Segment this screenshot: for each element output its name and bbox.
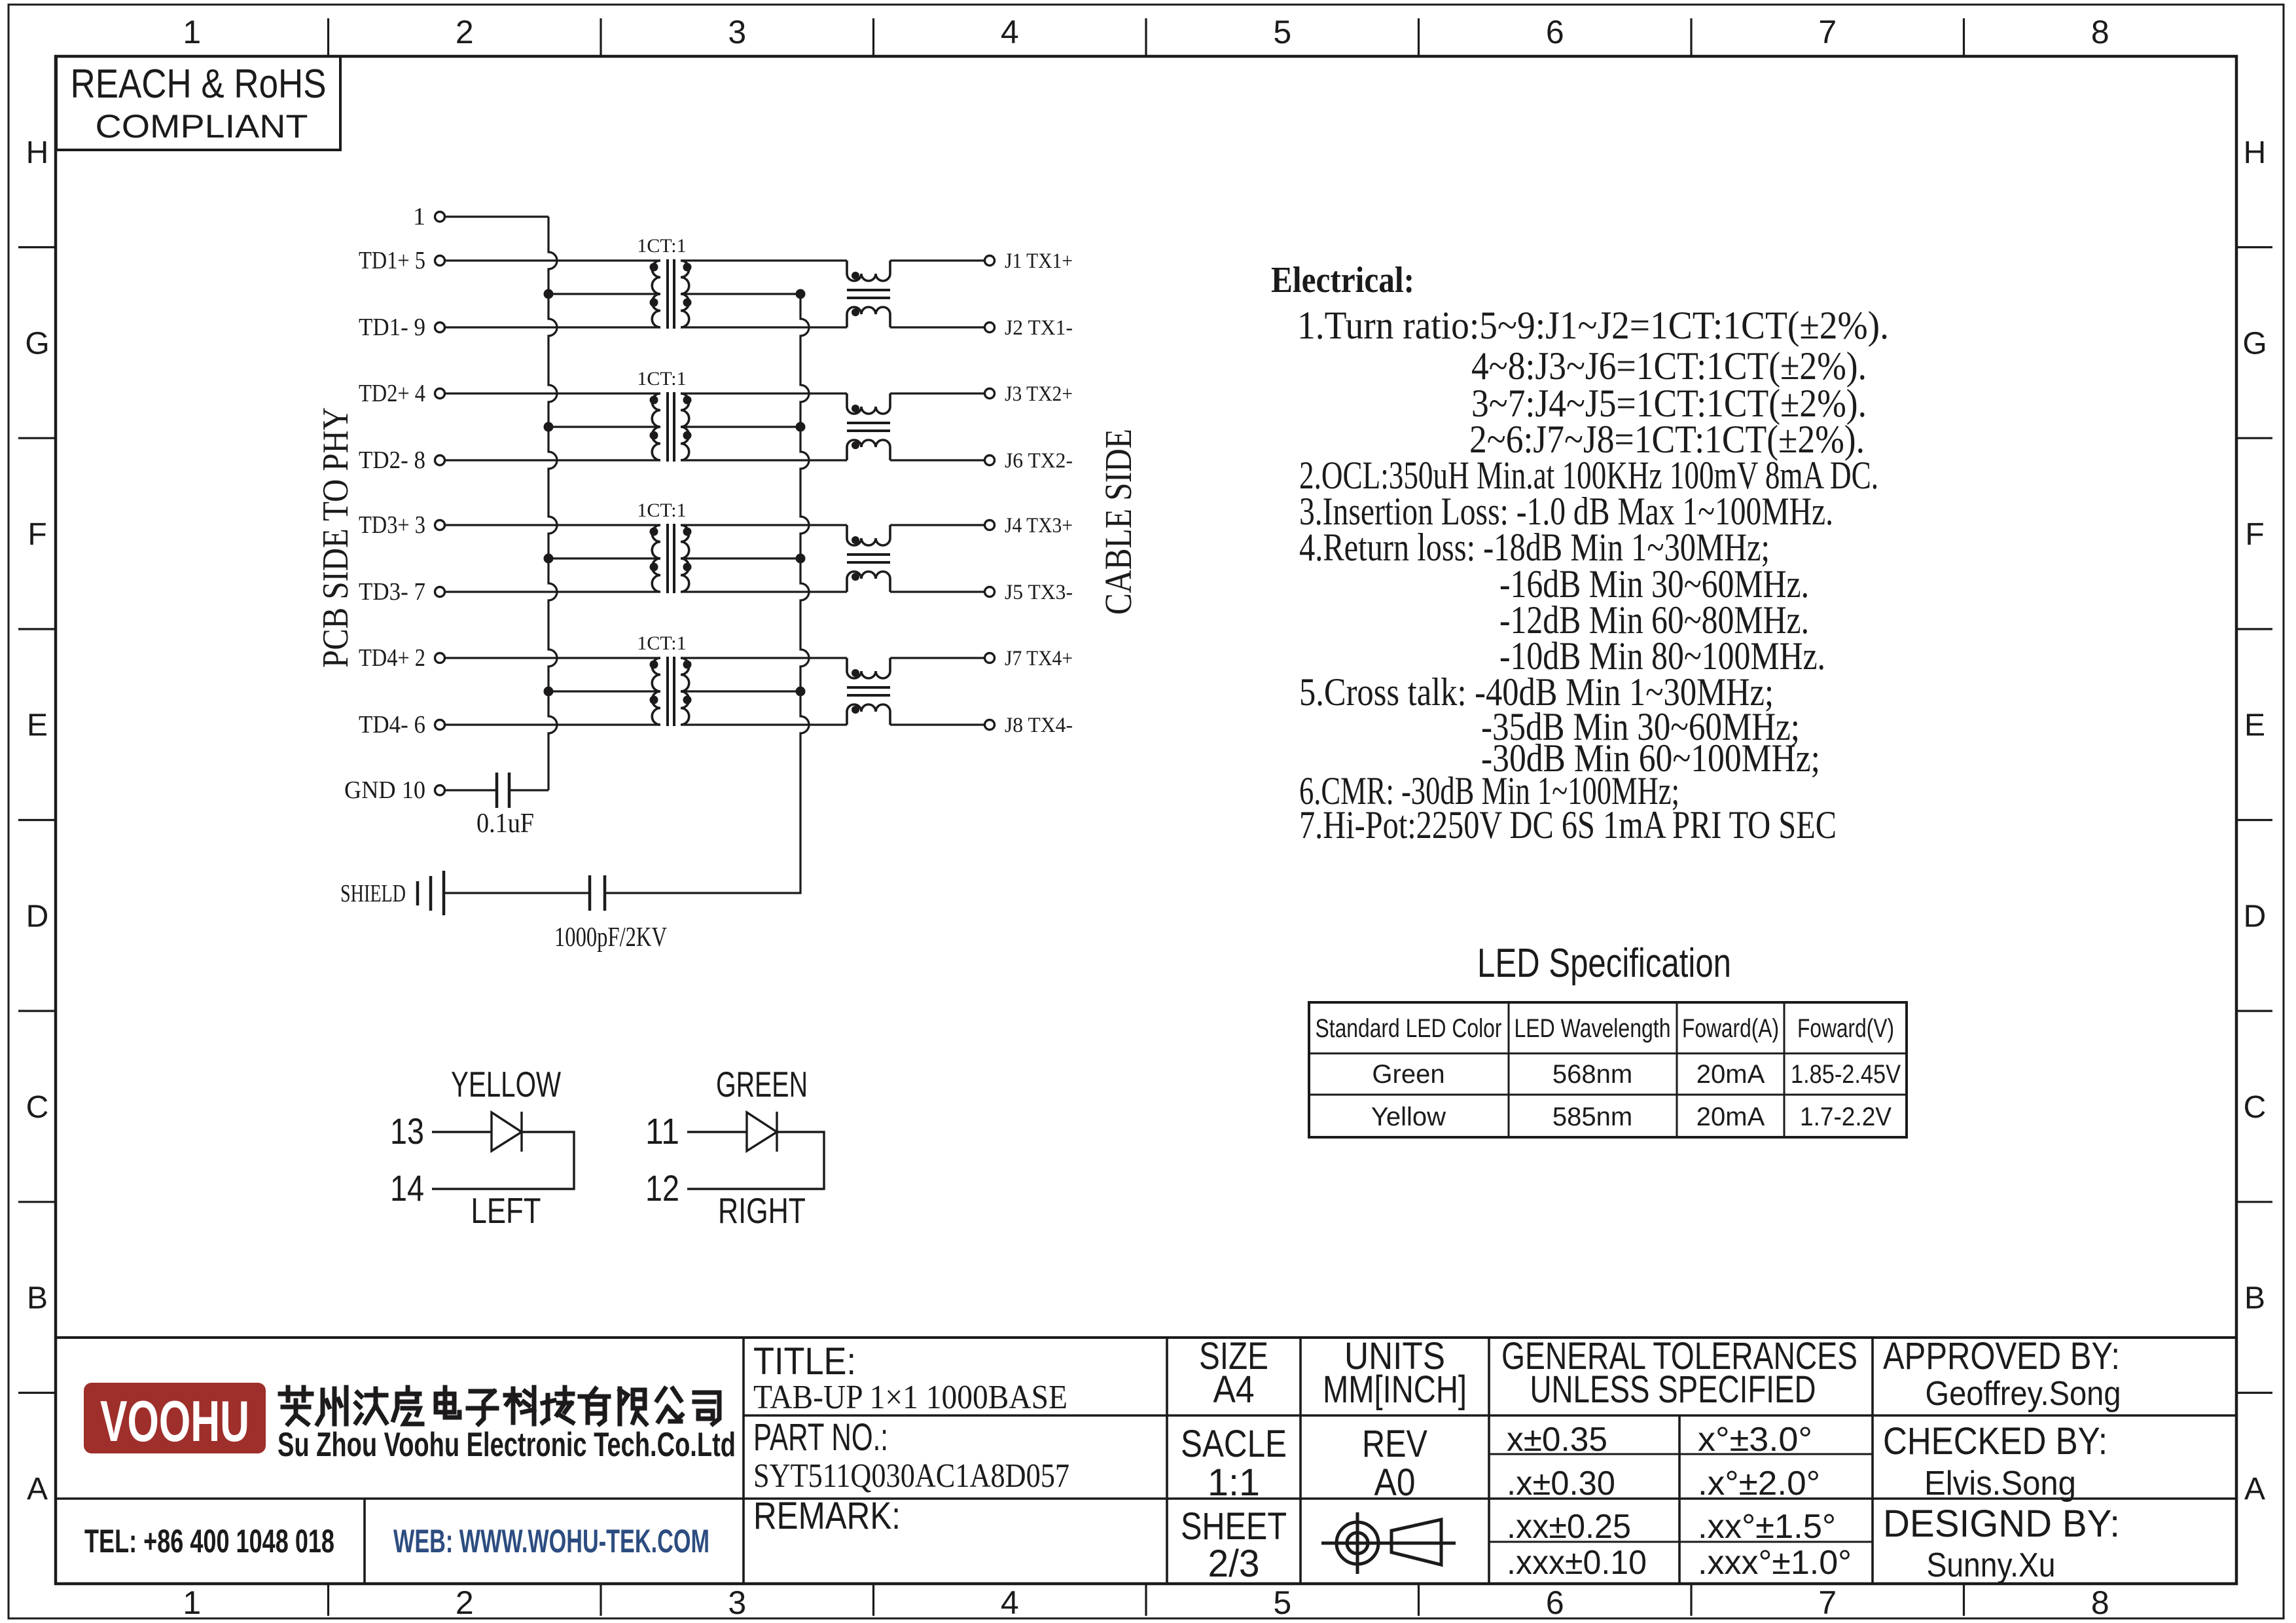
svg-text:6: 6 <box>1546 14 1564 50</box>
svg-text:F: F <box>2245 517 2264 552</box>
svg-text:YELLOW: YELLOW <box>451 1064 561 1104</box>
wire green loop <box>687 1132 824 1189</box>
svg-text:C: C <box>2244 1090 2267 1125</box>
svg-text:x°±3.0°: x°±3.0° <box>1698 1421 1812 1459</box>
svg-text:0.1uF: 0.1uF <box>476 809 534 839</box>
svg-text:A: A <box>2244 1472 2265 1506</box>
terminal J4 <box>985 520 995 530</box>
svg-text:TAB-UP 1×1 1000BASE: TAB-UP 1×1 1000BASE <box>753 1379 1067 1416</box>
transformer T4 (1CT:1) <box>444 632 847 726</box>
svg-text:J1 TX1+: J1 TX1+ <box>1005 249 1073 273</box>
svg-text:.xxx±0.10: .xxx±0.10 <box>1507 1544 1647 1582</box>
wire pin1 to bus <box>444 215 548 217</box>
svg-text:Elvis.Song: Elvis.Song <box>1924 1465 2076 1503</box>
svg-text:APPROVED BY:: APPROVED BY: <box>1883 1335 2120 1377</box>
svg-text:A4: A4 <box>1213 1368 1255 1411</box>
svg-text:LED Wavelength: LED Wavelength <box>1515 1014 1671 1043</box>
svg-text:COMPLIANT: COMPLIANT <box>96 108 308 145</box>
svg-text:SACLE: SACLE <box>1181 1423 1287 1465</box>
svg-text:F: F <box>27 517 46 552</box>
junction bus/center-tap y=853 <box>544 554 554 564</box>
svg-text:D: D <box>2244 899 2267 934</box>
svg-text:RIGHT: RIGHT <box>718 1190 806 1231</box>
junction rail/center-tap y=853 <box>796 554 806 564</box>
svg-text:E: E <box>2244 708 2265 743</box>
junction bus/center-tap y=449 <box>544 289 554 299</box>
terminal J8 <box>985 720 995 730</box>
svg-text:585nm: 585nm <box>1552 1103 1632 1131</box>
terminal J6 <box>985 456 995 465</box>
svg-text:CABLE SIDE: CABLE SIDE <box>1097 429 1139 615</box>
common-mode choke L1 <box>847 261 984 327</box>
svg-text:.x±0.30: .x±0.30 <box>1507 1465 1615 1503</box>
svg-text:.xx±0.25: .xx±0.25 <box>1507 1508 1631 1546</box>
secondary center-tap rail <box>605 294 809 893</box>
svg-text:5: 5 <box>1273 1584 1291 1621</box>
svg-text:J2 TX1-: J2 TX1- <box>1005 316 1073 340</box>
svg-text:Foward(V): Foward(V) <box>1797 1014 1894 1043</box>
svg-text:11: 11 <box>645 1110 679 1152</box>
svg-text:1CT:1: 1CT:1 <box>637 368 686 390</box>
svg-text:1000pF/2KV: 1000pF/2KV <box>554 922 667 953</box>
svg-text:12: 12 <box>645 1167 679 1209</box>
svg-text:4: 4 <box>1001 1584 1019 1621</box>
svg-text:1CT:1: 1CT:1 <box>637 500 686 521</box>
svg-text:Green: Green <box>1372 1060 1444 1089</box>
transformer T2 (1CT:1) <box>444 368 847 462</box>
company name (Chinese) <box>280 1387 312 1424</box>
svg-text:A0: A0 <box>1374 1461 1416 1504</box>
svg-text:WEB: WWW.WOHU-TEK.COM: WEB: WWW.WOHU-TEK.COM <box>393 1523 709 1559</box>
svg-text:REV: REV <box>1362 1423 1427 1465</box>
svg-text:DESIGND BY:: DESIGND BY: <box>1883 1503 2120 1545</box>
transformer T1 (1CT:1) <box>444 235 847 329</box>
svg-text:MM[INCH]: MM[INCH] <box>1323 1368 1467 1411</box>
svg-text:UNLESS SPECIFIED: UNLESS SPECIFIED <box>1530 1368 1816 1411</box>
svg-text:Yellow: Yellow <box>1371 1103 1446 1131</box>
svg-text:.x°±2.0°: .x°±2.0° <box>1698 1465 1820 1503</box>
svg-text:J4 TX3+: J4 TX3+ <box>1005 514 1073 538</box>
svg-text:.xxx°±1.0°: .xxx°±1.0° <box>1698 1544 1852 1582</box>
svg-text:GREEN: GREEN <box>716 1064 808 1104</box>
junction rail/center-tap y=652 <box>796 422 806 432</box>
svg-text:1.7-2.2V: 1.7-2.2V <box>1800 1103 1892 1131</box>
svg-text:1: 1 <box>183 1584 201 1621</box>
terminal J5 <box>985 587 995 597</box>
svg-text:TD2- 8: TD2- 8 <box>359 447 425 474</box>
svg-text:G: G <box>2242 326 2267 361</box>
svg-text:TD3+ 3: TD3+ 3 <box>359 511 425 539</box>
svg-text:E: E <box>27 708 48 743</box>
svg-text:Geoffrey.Song: Geoffrey.Song <box>1926 1375 2121 1413</box>
VOOHU logo <box>84 1383 266 1453</box>
svg-text:TD4+ 2: TD4+ 2 <box>359 644 425 672</box>
terminal J3 <box>985 389 995 399</box>
svg-text:3: 3 <box>728 14 746 50</box>
svg-text:TD2+ 4: TD2+ 4 <box>359 380 425 407</box>
svg-text:SHEET: SHEET <box>1181 1505 1287 1548</box>
junction bus/center-tap y=1056 <box>544 687 554 697</box>
terminal J2 <box>985 323 995 333</box>
svg-text:2/3: 2/3 <box>1208 1542 1260 1585</box>
svg-text:20mA: 20mA <box>1696 1060 1765 1089</box>
svg-text:CHECKED BY:: CHECKED BY: <box>1883 1420 2108 1463</box>
svg-text:LEFT: LEFT <box>471 1190 541 1231</box>
transformer T3 (1CT:1) <box>444 500 847 593</box>
svg-text:J3 TX2+: J3 TX2+ <box>1005 382 1073 406</box>
svg-text:SHIELD: SHIELD <box>340 880 406 907</box>
svg-text:Standard LED Color: Standard LED Color <box>1316 1014 1502 1043</box>
REACH & RoHS compliance box <box>56 56 340 150</box>
svg-text:G: G <box>25 326 49 361</box>
svg-text:1: 1 <box>183 14 201 50</box>
svg-text:TEL: +86 400 1048 018: TEL: +86 400 1048 018 <box>84 1523 334 1559</box>
svg-text:SYT511Q030AC1A8D057: SYT511Q030AC1A8D057 <box>753 1457 1069 1495</box>
svg-text:.xx°±1.5°: .xx°±1.5° <box>1698 1508 1836 1546</box>
terminal J1 <box>985 256 995 266</box>
svg-text:5: 5 <box>1273 14 1291 50</box>
svg-text:TD1+ 5: TD1+ 5 <box>359 247 425 274</box>
svg-text:Electrical:: Electrical: <box>1271 260 1414 301</box>
svg-text:1CT:1: 1CT:1 <box>637 235 686 257</box>
title block grid <box>56 1336 2236 1339</box>
svg-text:8: 8 <box>2091 1584 2109 1621</box>
svg-text:TD1- 9: TD1- 9 <box>359 314 425 341</box>
zone boundary ticks <box>327 18 329 56</box>
svg-text:J7 TX4+: J7 TX4+ <box>1005 647 1073 670</box>
junction rail/center-tap y=449 <box>796 289 806 299</box>
junction bus/center-tap y=652 <box>544 422 554 432</box>
svg-text:J5 TX3-: J5 TX3- <box>1005 581 1073 604</box>
svg-text:2: 2 <box>456 1584 474 1621</box>
svg-text:Sunny.Xu: Sunny.Xu <box>1927 1546 2056 1584</box>
svg-text:1:1: 1:1 <box>1208 1461 1260 1504</box>
wire yellow loop <box>432 1132 574 1189</box>
svg-text:13: 13 <box>390 1110 424 1152</box>
svg-text:1.Turn ratio:5~9:J1~J2=1CT:1CT: 1.Turn ratio:5~9:J1~J2=1CT:1CT(±2%). <box>1297 304 1889 347</box>
svg-text:1.85-2.45V: 1.85-2.45V <box>1791 1060 1901 1089</box>
svg-text:x±0.35: x±0.35 <box>1507 1421 1607 1459</box>
svg-text:4: 4 <box>1001 14 1019 50</box>
svg-text:B: B <box>27 1281 48 1316</box>
svg-text:H: H <box>2244 136 2267 170</box>
capacitor C 1000pF/2KV <box>588 875 592 911</box>
common-mode choke L4 <box>847 658 984 725</box>
svg-text:3: 3 <box>728 1584 746 1621</box>
svg-text:7.Hi-Pot:2250V DC 6S 1mA PRI T: 7.Hi-Pot:2250V DC 6S 1mA PRI TO SEC <box>1299 803 1837 847</box>
svg-text:J8 TX4-: J8 TX4- <box>1005 714 1073 737</box>
svg-text:VOOHU: VOOHU <box>100 1389 249 1453</box>
svg-text:Foward(A): Foward(A) <box>1682 1014 1779 1043</box>
svg-text:7: 7 <box>1818 1584 1837 1621</box>
svg-text:TD3- 7: TD3- 7 <box>359 578 425 606</box>
svg-text:1: 1 <box>413 203 425 230</box>
svg-text:2: 2 <box>456 14 474 50</box>
svg-text:14: 14 <box>390 1167 424 1209</box>
svg-text:D: D <box>26 899 49 934</box>
svg-text:6: 6 <box>1546 1584 1564 1621</box>
wire shield to capacitor <box>444 892 588 894</box>
svg-text:1CT:1: 1CT:1 <box>637 632 686 654</box>
svg-text:568nm: 568nm <box>1552 1060 1632 1089</box>
terminal J7 <box>985 653 995 663</box>
svg-text:Su Zhou Voohu Electronic Tech.: Su Zhou Voohu Electronic Tech.Co.Ltd <box>278 1426 736 1464</box>
svg-text:TITLE:: TITLE: <box>753 1340 856 1383</box>
primary center-tap bus <box>548 217 557 790</box>
svg-text:REACH & RoHS: REACH & RoHS <box>71 62 327 107</box>
svg-text:C: C <box>26 1090 49 1125</box>
svg-text:B: B <box>2244 1281 2265 1316</box>
diode yellow <box>432 1131 492 1133</box>
svg-text:TD4- 6: TD4- 6 <box>359 711 425 739</box>
svg-text:PART NO.:: PART NO.: <box>753 1416 888 1459</box>
svg-text:20mA: 20mA <box>1696 1103 1765 1131</box>
svg-text:REMARK:: REMARK: <box>753 1495 901 1537</box>
svg-text:H: H <box>26 136 49 170</box>
svg-text:7: 7 <box>1818 14 1837 50</box>
third-angle projection symbol <box>1336 1522 1378 1564</box>
junction rail/center-tap y=1056 <box>796 687 806 697</box>
svg-text:A: A <box>27 1472 48 1506</box>
capacitor C 0.1uF (GND) <box>444 789 495 791</box>
svg-text:8: 8 <box>2091 14 2109 50</box>
svg-text:J6 TX2-: J6 TX2- <box>1005 449 1073 473</box>
svg-text:PCB SIDE TO PHY: PCB SIDE TO PHY <box>315 407 356 668</box>
svg-text:GND 10: GND 10 <box>344 776 425 804</box>
common-mode choke L3 <box>847 525 984 592</box>
svg-text:LED Specification: LED Specification <box>1477 941 1731 986</box>
diode green <box>687 1131 747 1133</box>
common-mode choke L2 <box>847 393 984 460</box>
